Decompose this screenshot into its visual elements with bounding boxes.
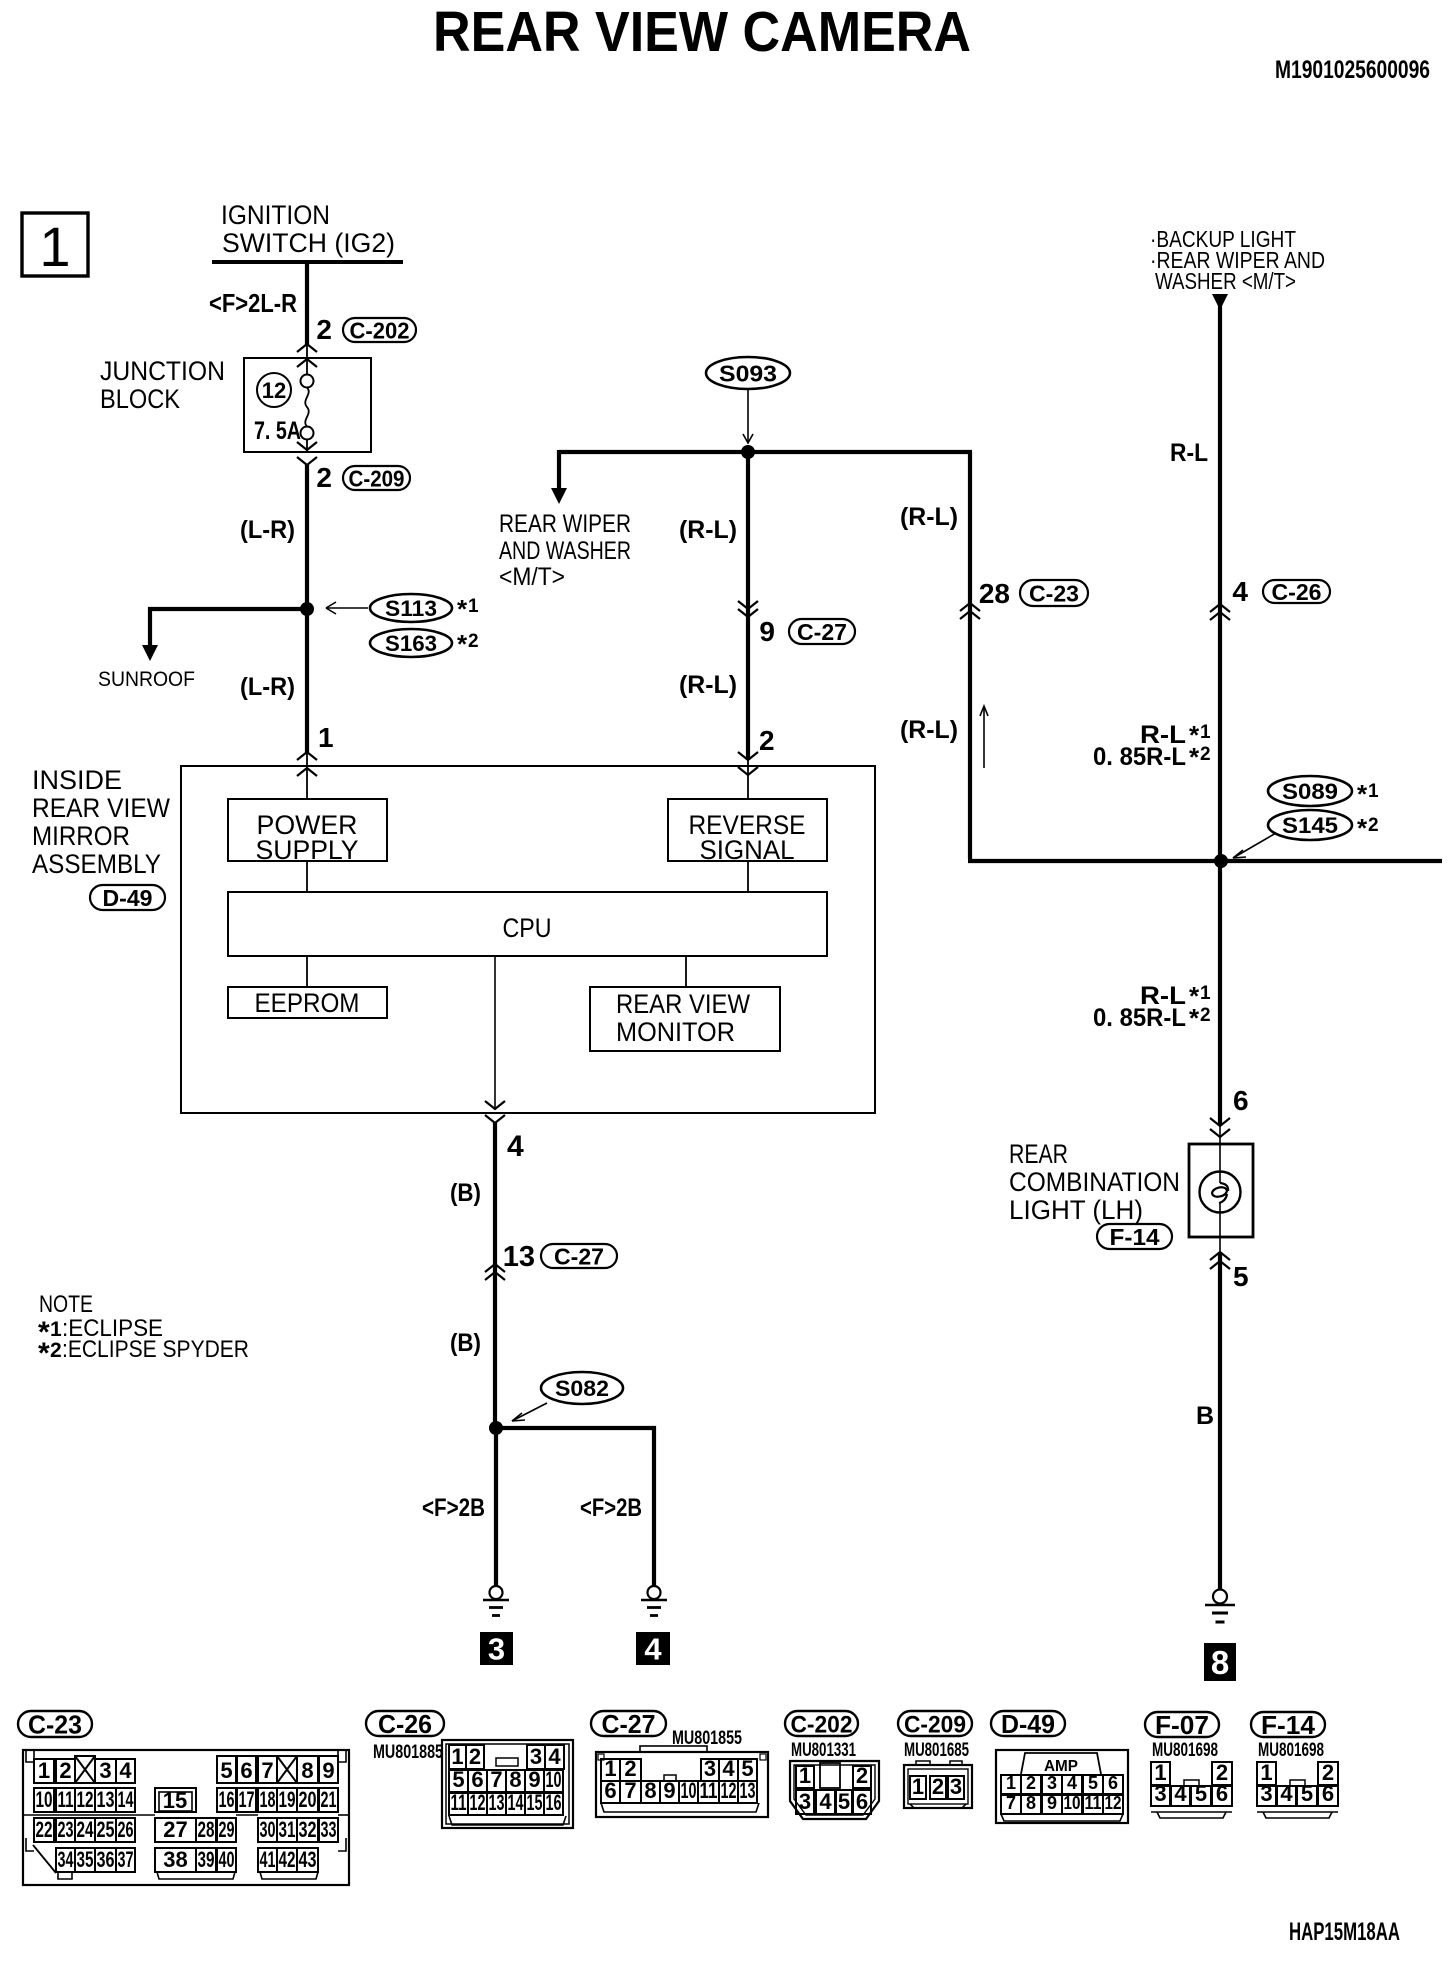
splice pointer arrow S113 bbox=[326, 602, 368, 614]
svg-text:10: 10 bbox=[546, 1767, 562, 1792]
wire S093 bus bbox=[559, 450, 972, 454]
splice S113 oval bbox=[370, 594, 479, 624]
svg-text:C-27: C-27 bbox=[797, 619, 847, 645]
connector C-27 ref second bbox=[541, 1244, 617, 1270]
svg-text:38: 38 bbox=[163, 1847, 187, 1872]
connector C-23 pinout body bbox=[23, 1750, 349, 1885]
svg-text:1: 1 bbox=[50, 1318, 62, 1341]
wire C-209 to splice S113 bbox=[305, 464, 309, 609]
wire label (L-R) lower bbox=[240, 673, 295, 701]
svg-text:4: 4 bbox=[507, 1130, 524, 1163]
doc number M1901025600096 bbox=[1275, 56, 1430, 84]
svg-text:10: 10 bbox=[1064, 1793, 1081, 1813]
svg-text:1: 1 bbox=[38, 1758, 50, 1783]
svg-text:*: * bbox=[457, 594, 468, 624]
svg-text:23: 23 bbox=[58, 1817, 74, 1842]
svg-text:11: 11 bbox=[700, 1778, 718, 1803]
backup light label bbox=[1150, 226, 1325, 294]
connector C-27 pinout body bbox=[596, 1746, 768, 1817]
wire into light box bbox=[1219, 1126, 1221, 1183]
wire fuse to chevrons bbox=[306, 439, 308, 452]
connector C-209 pin cells bbox=[910, 1774, 964, 1799]
splice S145 oval bbox=[1268, 810, 1379, 843]
svg-text:2: 2 bbox=[1200, 744, 1211, 765]
svg-text:*: * bbox=[1357, 779, 1368, 809]
mirror assembly label bbox=[32, 765, 170, 879]
wire label (L-R) upper bbox=[240, 516, 295, 544]
connector C-202 ref bbox=[343, 318, 416, 344]
svg-text:S082: S082 bbox=[555, 1376, 609, 1401]
svg-text:1: 1 bbox=[1200, 983, 1211, 1004]
splice S082 oval bbox=[541, 1372, 623, 1404]
svg-text:AND WASHER: AND WASHER bbox=[499, 537, 631, 565]
pin 1 label mirror bbox=[318, 722, 334, 753]
pin 5 label bbox=[1233, 1261, 1249, 1292]
svg-text:26: 26 bbox=[118, 1817, 134, 1842]
svg-text:BLOCK: BLOCK bbox=[100, 384, 180, 414]
svg-text:4: 4 bbox=[1174, 1781, 1187, 1806]
svg-text:D-49: D-49 bbox=[103, 885, 153, 911]
svg-text:0. 85R-L: 0. 85R-L bbox=[1093, 743, 1186, 771]
wire label R-L *1 lower bbox=[1093, 981, 1211, 1033]
svg-text:28: 28 bbox=[198, 1817, 215, 1842]
svg-text:22: 22 bbox=[36, 1817, 53, 1842]
svg-text:12: 12 bbox=[77, 1787, 94, 1812]
svg-text:1: 1 bbox=[1368, 781, 1379, 802]
ignition switch label bbox=[221, 200, 395, 258]
svg-text:4: 4 bbox=[819, 1789, 832, 1814]
cpu block bbox=[228, 892, 827, 956]
svg-text:1: 1 bbox=[1200, 722, 1211, 743]
svg-text:EEPROM: EEPROM bbox=[255, 988, 360, 1018]
wire label <F>2L-R bbox=[209, 288, 297, 318]
svg-text:SUNROOF: SUNROOF bbox=[98, 668, 195, 691]
svg-text:10: 10 bbox=[36, 1787, 53, 1812]
drawing number HAP15M18AA bbox=[1289, 1918, 1400, 1946]
connector crossing chevrons C-27 pin13 bbox=[485, 1264, 505, 1280]
connector F-14 pinout bbox=[1251, 1710, 1338, 1818]
svg-text:5: 5 bbox=[1088, 1773, 1098, 1793]
wire label (R-L) right lower bbox=[900, 716, 958, 744]
svg-text:24: 24 bbox=[77, 1817, 95, 1842]
svg-text:MU801885: MU801885 bbox=[373, 1742, 443, 1763]
connector C-26 ref bbox=[1263, 579, 1330, 605]
svg-text:S093: S093 bbox=[719, 360, 777, 386]
svg-text:14: 14 bbox=[118, 1787, 134, 1812]
svg-text:C-209: C-209 bbox=[349, 466, 405, 492]
connector C-27 pin cells bbox=[601, 1756, 757, 1803]
splice node S082 dot bbox=[489, 1421, 503, 1435]
wire S093 to C-23 bbox=[968, 452, 972, 859]
svg-text:(R-L): (R-L) bbox=[900, 716, 958, 744]
connector crossing chevrons mirror pin2 bbox=[738, 752, 758, 775]
svg-text:18: 18 bbox=[260, 1787, 276, 1812]
svg-text:6: 6 bbox=[1322, 1781, 1334, 1806]
svg-text:3: 3 bbox=[799, 1789, 811, 1814]
svg-text:12: 12 bbox=[721, 1778, 737, 1803]
svg-text:MU801685: MU801685 bbox=[904, 1740, 969, 1761]
svg-text:1: 1 bbox=[468, 596, 479, 617]
svg-text:5: 5 bbox=[838, 1789, 850, 1814]
svg-text:INSIDE: INSIDE bbox=[32, 765, 122, 795]
reverse signal block bbox=[668, 799, 827, 865]
svg-text:C-202: C-202 bbox=[791, 1711, 853, 1738]
svg-text:C-26: C-26 bbox=[1272, 579, 1322, 605]
svg-text:5: 5 bbox=[452, 1767, 464, 1792]
svg-text:F-14: F-14 bbox=[1261, 1710, 1316, 1740]
connector D-49 pinout body bbox=[996, 1750, 1128, 1823]
svg-text:(B): (B) bbox=[450, 1179, 481, 1207]
svg-text:S145: S145 bbox=[1282, 813, 1338, 838]
svg-text:C-23: C-23 bbox=[1029, 581, 1079, 607]
svg-text:19: 19 bbox=[279, 1787, 296, 1812]
connector crossing chevrons C-23 pin28 bbox=[960, 603, 980, 619]
connector D-49 pin cells bbox=[1001, 1773, 1123, 1814]
connector C-26 pinout label bbox=[366, 1709, 444, 1739]
connector C-23 pin cells bbox=[34, 1756, 338, 1872]
ground id box 3 bbox=[480, 1632, 513, 1667]
svg-text:41: 41 bbox=[260, 1847, 276, 1872]
wire backup light to C-26 bbox=[1218, 300, 1222, 861]
splice node S093 dot bbox=[741, 445, 755, 459]
connector C-26 part number bbox=[373, 1742, 443, 1763]
svg-text:R-L: R-L bbox=[1170, 439, 1208, 467]
connector C-209 pinout label bbox=[898, 1711, 972, 1738]
svg-text:35: 35 bbox=[77, 1847, 94, 1872]
wire mirror pin4 to S082 bbox=[493, 1123, 497, 1428]
svg-text:REAR VIEW: REAR VIEW bbox=[32, 793, 170, 823]
wire C-23 to splice S089 bbox=[968, 859, 1442, 863]
connector crossing chevrons C-209 bbox=[297, 442, 317, 465]
svg-text:REAR VIEW CAMERA: REAR VIEW CAMERA bbox=[433, 0, 971, 64]
connector C-209 part number bbox=[904, 1740, 969, 1761]
svg-text:(L-R): (L-R) bbox=[240, 516, 295, 544]
connector crossing chevrons mirror pin4 bbox=[485, 1101, 505, 1123]
svg-text:1: 1 bbox=[451, 1744, 463, 1769]
svg-text:S089: S089 bbox=[1282, 779, 1338, 804]
connector C-209 pinout body bbox=[904, 1761, 972, 1808]
svg-text:4: 4 bbox=[119, 1758, 132, 1783]
svg-text:12: 12 bbox=[470, 1790, 486, 1815]
svg-text:0. 85R-L: 0. 85R-L bbox=[1093, 1004, 1186, 1032]
pin 6 label bbox=[1233, 1085, 1249, 1116]
svg-text:3: 3 bbox=[950, 1774, 962, 1799]
sunroof label bbox=[98, 668, 195, 691]
svg-text:20: 20 bbox=[299, 1787, 317, 1812]
pin 13 label bbox=[503, 1241, 535, 1273]
wire label (R-L) mid upper bbox=[679, 516, 737, 544]
svg-text:IGNITION: IGNITION bbox=[221, 200, 330, 230]
svg-text:C-27: C-27 bbox=[602, 1709, 656, 1739]
wire label R-L *1 upper bbox=[1093, 720, 1211, 772]
svg-text:B: B bbox=[1196, 1402, 1214, 1430]
connector F-14 ref label bbox=[1097, 1224, 1172, 1250]
svg-text:2: 2 bbox=[759, 725, 775, 756]
svg-text:C-26: C-26 bbox=[378, 1709, 432, 1739]
svg-text:6: 6 bbox=[1216, 1781, 1228, 1806]
wire into reverse signal bbox=[747, 760, 749, 799]
svg-text:F-14: F-14 bbox=[1110, 1224, 1160, 1250]
connector D-49 pinout label bbox=[991, 1709, 1065, 1739]
svg-text:8: 8 bbox=[644, 1778, 656, 1803]
svg-text:3: 3 bbox=[1047, 1773, 1057, 1793]
svg-text:MU801698: MU801698 bbox=[1258, 1740, 1324, 1761]
connector C-27 ref bbox=[789, 619, 855, 645]
svg-text:REAR WIPER: REAR WIPER bbox=[499, 510, 631, 538]
svg-text:<M/T>: <M/T> bbox=[499, 563, 565, 591]
svg-text:C-202: C-202 bbox=[350, 318, 410, 344]
splice node S113/S163 dot bbox=[300, 602, 314, 616]
fuse number circle 12 bbox=[257, 373, 291, 407]
rear view monitor block bbox=[590, 987, 780, 1051]
svg-text:(R-L): (R-L) bbox=[900, 503, 958, 531]
svg-text:(B): (B) bbox=[450, 1329, 481, 1357]
svg-text:2: 2 bbox=[1368, 815, 1379, 836]
svg-text:<F>2B: <F>2B bbox=[580, 1494, 642, 1522]
wire cpu to eeprom bbox=[306, 956, 308, 987]
svg-text:5: 5 bbox=[1195, 1781, 1207, 1806]
svg-text:9: 9 bbox=[322, 1758, 334, 1783]
connector C-26 pinout body bbox=[442, 1740, 573, 1828]
svg-text:*: * bbox=[1357, 813, 1368, 843]
svg-text:2: 2 bbox=[856, 1763, 868, 1788]
svg-text:F-07: F-07 bbox=[1155, 1710, 1209, 1740]
svg-text:ASSEMBLY: ASSEMBLY bbox=[32, 849, 161, 879]
svg-text:7: 7 bbox=[490, 1767, 502, 1792]
svg-text:1: 1 bbox=[39, 215, 70, 278]
connector C-202 pinout label bbox=[785, 1711, 858, 1738]
svg-text:3: 3 bbox=[99, 1758, 111, 1783]
wire into power supply bbox=[306, 752, 308, 799]
svg-text:21: 21 bbox=[321, 1787, 337, 1812]
svg-text:14: 14 bbox=[508, 1790, 524, 1815]
title REAR VIEW CAMERA bbox=[433, 0, 971, 64]
junction block label bbox=[100, 356, 225, 414]
svg-text:13: 13 bbox=[97, 1787, 115, 1812]
wire label (B) lower bbox=[450, 1329, 481, 1357]
svg-text:13: 13 bbox=[503, 1241, 535, 1273]
svg-text:13: 13 bbox=[489, 1790, 505, 1815]
svg-text:7. 5A: 7. 5A bbox=[254, 417, 301, 445]
sunroof feed arrow bbox=[142, 645, 158, 661]
wire label (R-L) mid lower bbox=[679, 671, 737, 699]
svg-text:(R-L): (R-L) bbox=[679, 671, 737, 699]
svg-text:25: 25 bbox=[97, 1817, 115, 1842]
svg-text:37: 37 bbox=[118, 1847, 134, 1872]
connector crossing chevrons C-26 pin4 bbox=[1210, 604, 1230, 620]
svg-text:1: 1 bbox=[799, 1763, 811, 1788]
wire reverse signal to cpu bbox=[747, 861, 749, 892]
splice S093 arrow bbox=[743, 390, 753, 443]
pin 28 label bbox=[979, 578, 1010, 609]
svg-text:5: 5 bbox=[220, 1758, 232, 1783]
svg-text:8: 8 bbox=[1026, 1793, 1036, 1813]
svg-text:REAR: REAR bbox=[1009, 1139, 1068, 1169]
svg-text:5: 5 bbox=[1301, 1781, 1313, 1806]
svg-text:8: 8 bbox=[301, 1758, 313, 1783]
connector crossing chevrons mirror pin1 bbox=[297, 752, 317, 776]
svg-text:MONITOR: MONITOR bbox=[616, 1017, 735, 1047]
note text bbox=[38, 1291, 249, 1370]
connector C-209 ref bbox=[343, 466, 410, 492]
wire cpu to pin 4 bbox=[494, 956, 496, 1109]
svg-text:JUNCTION: JUNCTION bbox=[100, 356, 225, 386]
svg-text:2: 2 bbox=[316, 462, 332, 493]
backup light feed arrow bbox=[1212, 294, 1228, 310]
svg-text::ECLIPSE SPYDER: :ECLIPSE SPYDER bbox=[62, 1336, 249, 1363]
svg-text:10: 10 bbox=[681, 1778, 697, 1803]
svg-text:30: 30 bbox=[260, 1817, 276, 1842]
splice S093 oval bbox=[706, 357, 790, 389]
svg-text:16: 16 bbox=[546, 1790, 562, 1815]
eeprom block bbox=[228, 987, 387, 1018]
svg-text:12: 12 bbox=[1105, 1793, 1122, 1813]
svg-text:5: 5 bbox=[1233, 1261, 1249, 1292]
svg-text:NOTE: NOTE bbox=[39, 1291, 93, 1318]
wire branch to rear wiper bbox=[557, 450, 561, 488]
svg-text:(L-R): (L-R) bbox=[240, 673, 295, 701]
ground symbol 8 bbox=[1205, 1590, 1235, 1623]
svg-text:11: 11 bbox=[58, 1787, 74, 1812]
svg-text:2: 2 bbox=[59, 1758, 71, 1783]
connector crossing chevrons light pin6 bbox=[1210, 1118, 1230, 1137]
wire branch to sunroof bbox=[150, 609, 307, 645]
svg-text:4: 4 bbox=[548, 1744, 561, 1769]
splice S089 oval bbox=[1268, 776, 1379, 809]
svg-text:3: 3 bbox=[530, 1744, 542, 1769]
svg-text:4: 4 bbox=[644, 1632, 662, 1667]
wire S082 to ground 3 bbox=[494, 1428, 498, 1586]
junction block box bbox=[244, 358, 371, 452]
svg-text:C-209: C-209 bbox=[904, 1711, 966, 1738]
svg-text:8: 8 bbox=[509, 1767, 521, 1792]
svg-text:2: 2 bbox=[1200, 1005, 1211, 1026]
svg-text:CPU: CPU bbox=[503, 913, 552, 943]
wire cpu to monitor bbox=[685, 956, 687, 987]
svg-text:27: 27 bbox=[163, 1817, 187, 1842]
svg-text:33: 33 bbox=[321, 1817, 337, 1842]
backup lamp symbol bbox=[1200, 1172, 1241, 1213]
splice S163 oval bbox=[370, 629, 479, 659]
page marker box 1 bbox=[22, 213, 88, 278]
fuse rating label 7.5A bbox=[254, 417, 301, 445]
splice pointer arrow S089 bbox=[1233, 833, 1276, 858]
ground symbol 3 bbox=[483, 1586, 509, 1616]
svg-text:MU801698: MU801698 bbox=[1152, 1740, 1218, 1761]
svg-text:13: 13 bbox=[740, 1778, 756, 1803]
pin 9 label bbox=[759, 616, 775, 647]
pin 4 label mirror bbox=[507, 1130, 524, 1163]
svg-text:28: 28 bbox=[979, 578, 1010, 609]
wire lamp to pin 5 bbox=[1219, 1203, 1221, 1252]
svg-text:9: 9 bbox=[528, 1767, 540, 1792]
svg-text:6: 6 bbox=[1108, 1773, 1118, 1793]
svg-text:31: 31 bbox=[279, 1817, 296, 1842]
rear wiper feed arrow bbox=[551, 488, 567, 504]
wire label R-L bbox=[1170, 439, 1208, 467]
connector C-27 part number bbox=[672, 1728, 742, 1749]
svg-text:SWITCH (IG2): SWITCH (IG2) bbox=[222, 228, 395, 258]
wire branch to ground 4 bbox=[496, 1428, 654, 1586]
wire label B bbox=[1196, 1402, 1214, 1430]
svg-text:2: 2 bbox=[469, 1744, 481, 1769]
svg-text:9: 9 bbox=[663, 1778, 675, 1803]
svg-text:2: 2 bbox=[50, 1339, 62, 1362]
pin 2 label C-209 bbox=[316, 462, 332, 493]
svg-text:*: * bbox=[1189, 1003, 1200, 1033]
svg-text:32: 32 bbox=[299, 1817, 317, 1842]
fuse 7.5A symbol bbox=[301, 375, 314, 440]
connector D-49 ref label bbox=[90, 885, 165, 911]
rear wiper and washer label bbox=[499, 510, 631, 591]
splice node S089/S145 dot bbox=[1214, 854, 1228, 868]
svg-text:2: 2 bbox=[316, 314, 332, 345]
ignition switch bus bar bbox=[212, 260, 403, 264]
pin 2 label bbox=[316, 314, 332, 345]
svg-text:6: 6 bbox=[1233, 1085, 1249, 1116]
svg-text:REAR VIEW: REAR VIEW bbox=[616, 989, 750, 1019]
wire label (B) upper bbox=[450, 1179, 481, 1207]
svg-text:7: 7 bbox=[261, 1758, 273, 1783]
svg-text:*: * bbox=[38, 1337, 50, 1370]
svg-text:LIGHT (LH): LIGHT (LH) bbox=[1009, 1195, 1143, 1225]
power supply block bbox=[228, 799, 387, 865]
svg-text:<F>2L-R: <F>2L-R bbox=[209, 288, 297, 318]
ground symbol 4 bbox=[641, 1586, 667, 1616]
svg-text:3: 3 bbox=[1260, 1781, 1272, 1806]
svg-text:29: 29 bbox=[219, 1817, 235, 1842]
svg-text:11: 11 bbox=[451, 1790, 467, 1815]
svg-text:6: 6 bbox=[471, 1767, 483, 1792]
svg-text:SUPPLY: SUPPLY bbox=[256, 835, 359, 865]
svg-text:4: 4 bbox=[1067, 1773, 1077, 1793]
svg-text:7: 7 bbox=[1006, 1793, 1016, 1813]
rear combination light label bbox=[1009, 1139, 1180, 1225]
svg-text:COMBINATION: COMBINATION bbox=[1009, 1167, 1180, 1197]
pin 2 label mirror bbox=[759, 725, 775, 756]
connector C-202 part number bbox=[791, 1740, 856, 1761]
wire label <F>2B left bbox=[422, 1494, 485, 1522]
svg-text:39: 39 bbox=[198, 1847, 215, 1872]
svg-text:8: 8 bbox=[1211, 1644, 1229, 1681]
wire label (R-L) right upper bbox=[900, 503, 958, 531]
connector C-202 pin cells bbox=[796, 1763, 871, 1814]
svg-text:2: 2 bbox=[932, 1774, 944, 1799]
svg-text:MIRROR: MIRROR bbox=[32, 821, 130, 851]
svg-text:34: 34 bbox=[58, 1847, 74, 1872]
svg-text:1: 1 bbox=[912, 1774, 924, 1799]
svg-text:42: 42 bbox=[279, 1847, 296, 1872]
svg-text:12: 12 bbox=[262, 378, 286, 403]
svg-text:D-49: D-49 bbox=[1001, 1709, 1055, 1739]
svg-text:40: 40 bbox=[219, 1847, 235, 1872]
svg-text:C-23: C-23 bbox=[28, 1710, 82, 1740]
svg-text:4: 4 bbox=[1232, 576, 1248, 607]
wire label <F>2B right bbox=[580, 1494, 642, 1522]
svg-text:*: * bbox=[1189, 742, 1200, 772]
svg-text:1: 1 bbox=[318, 722, 334, 753]
svg-text:*: * bbox=[457, 629, 468, 659]
svg-text:S163: S163 bbox=[385, 631, 437, 656]
svg-text:6: 6 bbox=[604, 1778, 616, 1803]
mirror assembly box bbox=[181, 766, 875, 1113]
svg-text:15: 15 bbox=[163, 1788, 187, 1813]
ground id box 8 bbox=[1204, 1643, 1236, 1681]
svg-text:11: 11 bbox=[1085, 1793, 1102, 1813]
svg-text:9: 9 bbox=[759, 616, 775, 647]
connector crossing chevrons C-202 bbox=[297, 344, 317, 367]
svg-text:HAP15M18AA: HAP15M18AA bbox=[1289, 1918, 1400, 1946]
